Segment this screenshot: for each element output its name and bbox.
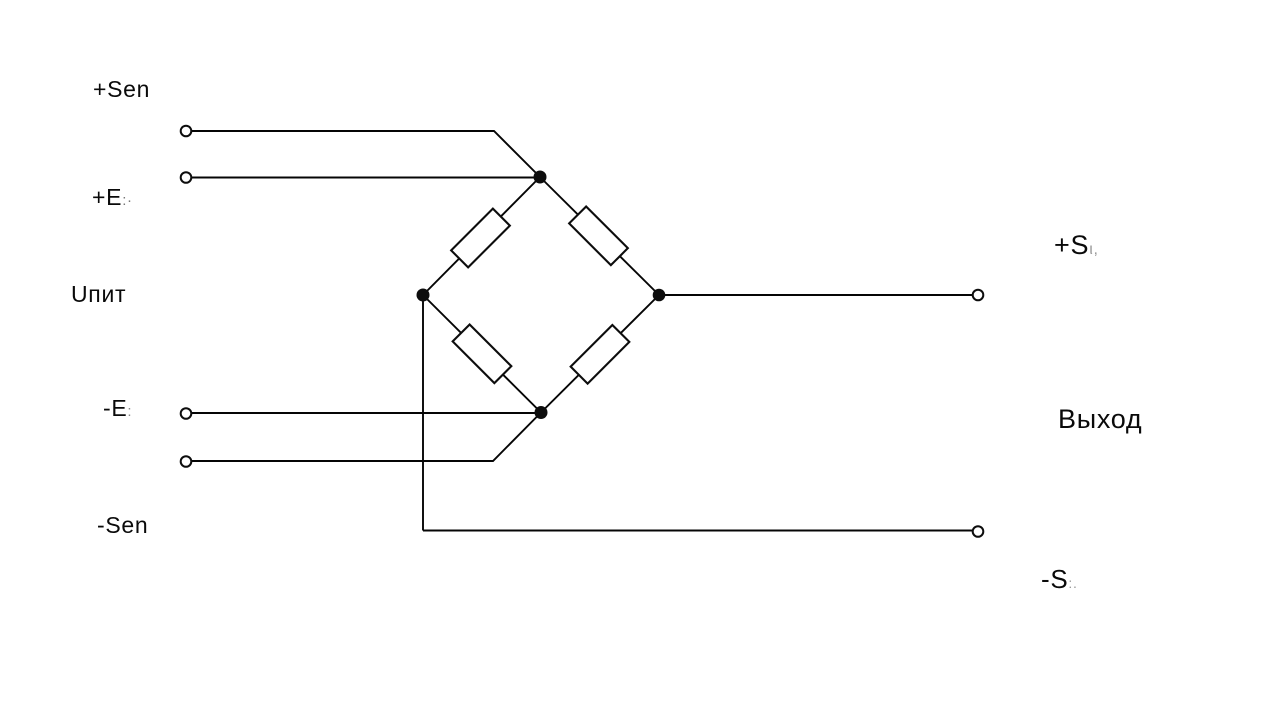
wire -Sig horizontal segment to terminal xyxy=(423,530,972,532)
svg-text:-Sen: -Sen xyxy=(97,512,148,538)
svg-text:-S:.: -S:. xyxy=(1041,564,1078,594)
svg-text:Выход: Выход xyxy=(1058,404,1142,434)
resistor R2 top-right arm xyxy=(569,206,628,265)
resistor R4 bottom-right arm xyxy=(571,325,630,384)
resistor R3 bottom-left arm xyxy=(453,324,512,383)
terminal +Ex xyxy=(181,172,192,183)
svg-text:+Sι,: +Sι, xyxy=(1054,230,1099,260)
wire bridge side top-left xyxy=(423,177,540,295)
node left (-signal junction) xyxy=(417,289,430,302)
wire +Ex from terminal to top node xyxy=(192,177,536,179)
wire -Sen from terminal to bottom node xyxy=(192,413,541,462)
terminal -Ex xyxy=(181,408,192,419)
terminal -Sig xyxy=(973,526,984,537)
node bottom (-excitation junction) xyxy=(535,406,548,419)
wire bridge side top-right xyxy=(540,177,659,295)
terminal -Sen xyxy=(181,456,192,467)
wire -Sig vertical segment from left node xyxy=(422,299,424,531)
terminal +Sig xyxy=(973,290,984,301)
svg-text:-E:: -E: xyxy=(103,395,132,421)
wire bridge side bottom-right xyxy=(541,295,659,413)
resistor R1 top-left arm xyxy=(451,209,510,268)
svg-text:Uпит: Uпит xyxy=(71,281,126,307)
wire bridge side bottom-left xyxy=(423,295,541,413)
svg-text:+E:·: +E:· xyxy=(92,184,133,210)
node right (+signal junction) xyxy=(653,289,666,302)
wire +Sen from terminal to top node xyxy=(192,131,540,177)
terminal +Sen xyxy=(181,126,192,137)
svg-text:+Sen: +Sen xyxy=(93,76,150,102)
wire +Sig from right node to terminal xyxy=(663,294,972,296)
node top (+excitation junction) xyxy=(534,171,547,184)
wire -Ex from terminal to bottom node xyxy=(192,412,537,414)
